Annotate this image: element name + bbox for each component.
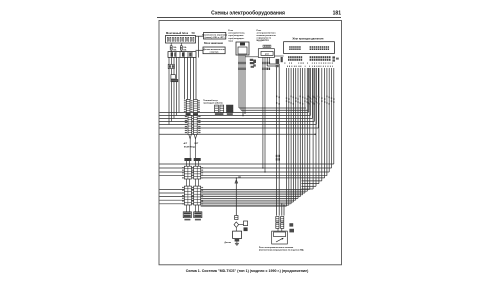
svg-text:Типовой жгут: Типовой жгут <box>203 99 219 102</box>
svg-text:проводов кабины: проводов кабины <box>203 102 223 105</box>
svg-text:МД-ДЖЕТРО: МД-ДЖЕТРО <box>257 40 270 42</box>
svg-text:Монтажный блок: Монтажный блок <box>166 31 189 35</box>
svg-text:и форсунок на: и форсунок на <box>257 37 272 40</box>
svg-text:стартера: стартера <box>210 52 220 54</box>
svg-text:Блок зажигания: Блок зажигания <box>204 42 223 45</box>
svg-text:Схемы электрооборудования: Схемы электрооборудования <box>211 10 285 17</box>
svg-text:Реле электромагнитного клапана: Реле электромагнитного клапана <box>259 247 294 249</box>
svg-text:Жгут проводов двигателя: Жгут проводов двигателя <box>293 38 324 41</box>
svg-text:(включения) кондиционера на мо: (включения) кондиционера на моделях МД <box>259 250 304 252</box>
svg-text:Датчик: Датчик <box>224 242 231 244</box>
svg-text:Схема 1. Система "MD-TICS" (ти: Схема 1. Система "MD-TICS" (тип 1) (моде… <box>186 269 309 273</box>
svg-text:ECM МОД: ECM МОД <box>184 146 195 148</box>
svg-text:реле: реле <box>265 53 269 55</box>
svg-text:(замок) «ON» и «ST»: (замок) «ON» и «ST» <box>205 37 226 39</box>
svg-text:181: 181 <box>333 11 342 17</box>
